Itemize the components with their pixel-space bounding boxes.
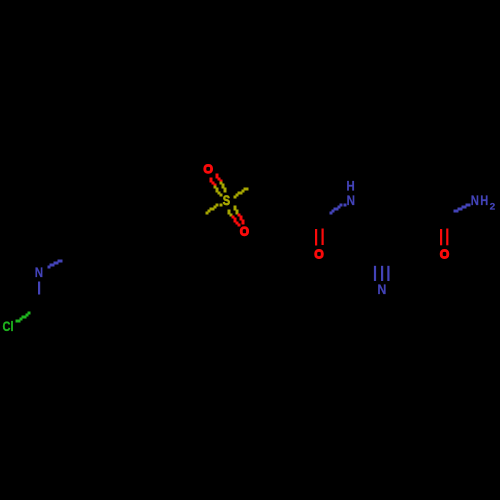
wire amide1 N-C half-bond bbox=[330, 204, 347, 215]
wire nitrile C#N triple bond line 3 bbox=[387, 266, 389, 281]
chlorine Cl label bbox=[3, 319, 14, 334]
wire S=O bottom double bond line B bbox=[234, 206, 245, 225]
oxygen O label amide1 bbox=[316, 250, 323, 257]
wire S=O top double bond line A bbox=[210, 178, 223, 197]
oxygen O label sulfonyl top bbox=[205, 165, 212, 172]
wire N-C upper-right half-bond bbox=[48, 260, 63, 269]
nitrogen N label imine bbox=[35, 264, 43, 280]
svg-text:N: N bbox=[347, 192, 355, 208]
wire amide2 N-C half-bond bbox=[454, 204, 471, 213]
wire S-CH2 lower-left half-bond bbox=[206, 204, 223, 215]
svg-text:S: S bbox=[223, 193, 230, 208]
wire amide1 C=O double bond left line bbox=[315, 229, 317, 246]
wire N-C vertical half-bond bbox=[38, 282, 40, 295]
hydrogen H label amide1 bbox=[346, 178, 354, 193]
svg-text:N: N bbox=[377, 281, 386, 297]
svg-text:H: H bbox=[480, 192, 488, 208]
wire S=O top double bond line B bbox=[216, 174, 227, 193]
nitrogen N label amide2 NH2 bbox=[471, 192, 496, 212]
wire Cl-C half-bond bbox=[16, 312, 31, 323]
svg-text:N: N bbox=[35, 264, 43, 280]
wire amide2 C=O double bond right line bbox=[446, 229, 448, 246]
svg-text:Cl: Cl bbox=[3, 319, 14, 334]
wire S-CH2 upper-right half-bond bbox=[234, 188, 249, 199]
nitrogen N label amide1 bbox=[347, 192, 355, 208]
oxygen O label sulfonyl bottom bbox=[241, 228, 247, 235]
svg-text:N: N bbox=[471, 192, 479, 208]
sulfur S label sulfonyl bbox=[223, 193, 230, 208]
nitrogen N label nitrile bbox=[377, 281, 386, 297]
wire nitrile C#N triple bond line 1 bbox=[374, 266, 376, 281]
wire amide2 C=O double bond left line bbox=[440, 229, 442, 245]
wire amide1 C=O double bond right line bbox=[322, 229, 324, 246]
wire nitrile C#N triple bond line 2 bbox=[381, 266, 383, 281]
oxygen O label amide2 bbox=[441, 250, 448, 257]
svg-text:2: 2 bbox=[490, 201, 496, 212]
wire S=O bottom double bond line A bbox=[228, 210, 241, 227]
